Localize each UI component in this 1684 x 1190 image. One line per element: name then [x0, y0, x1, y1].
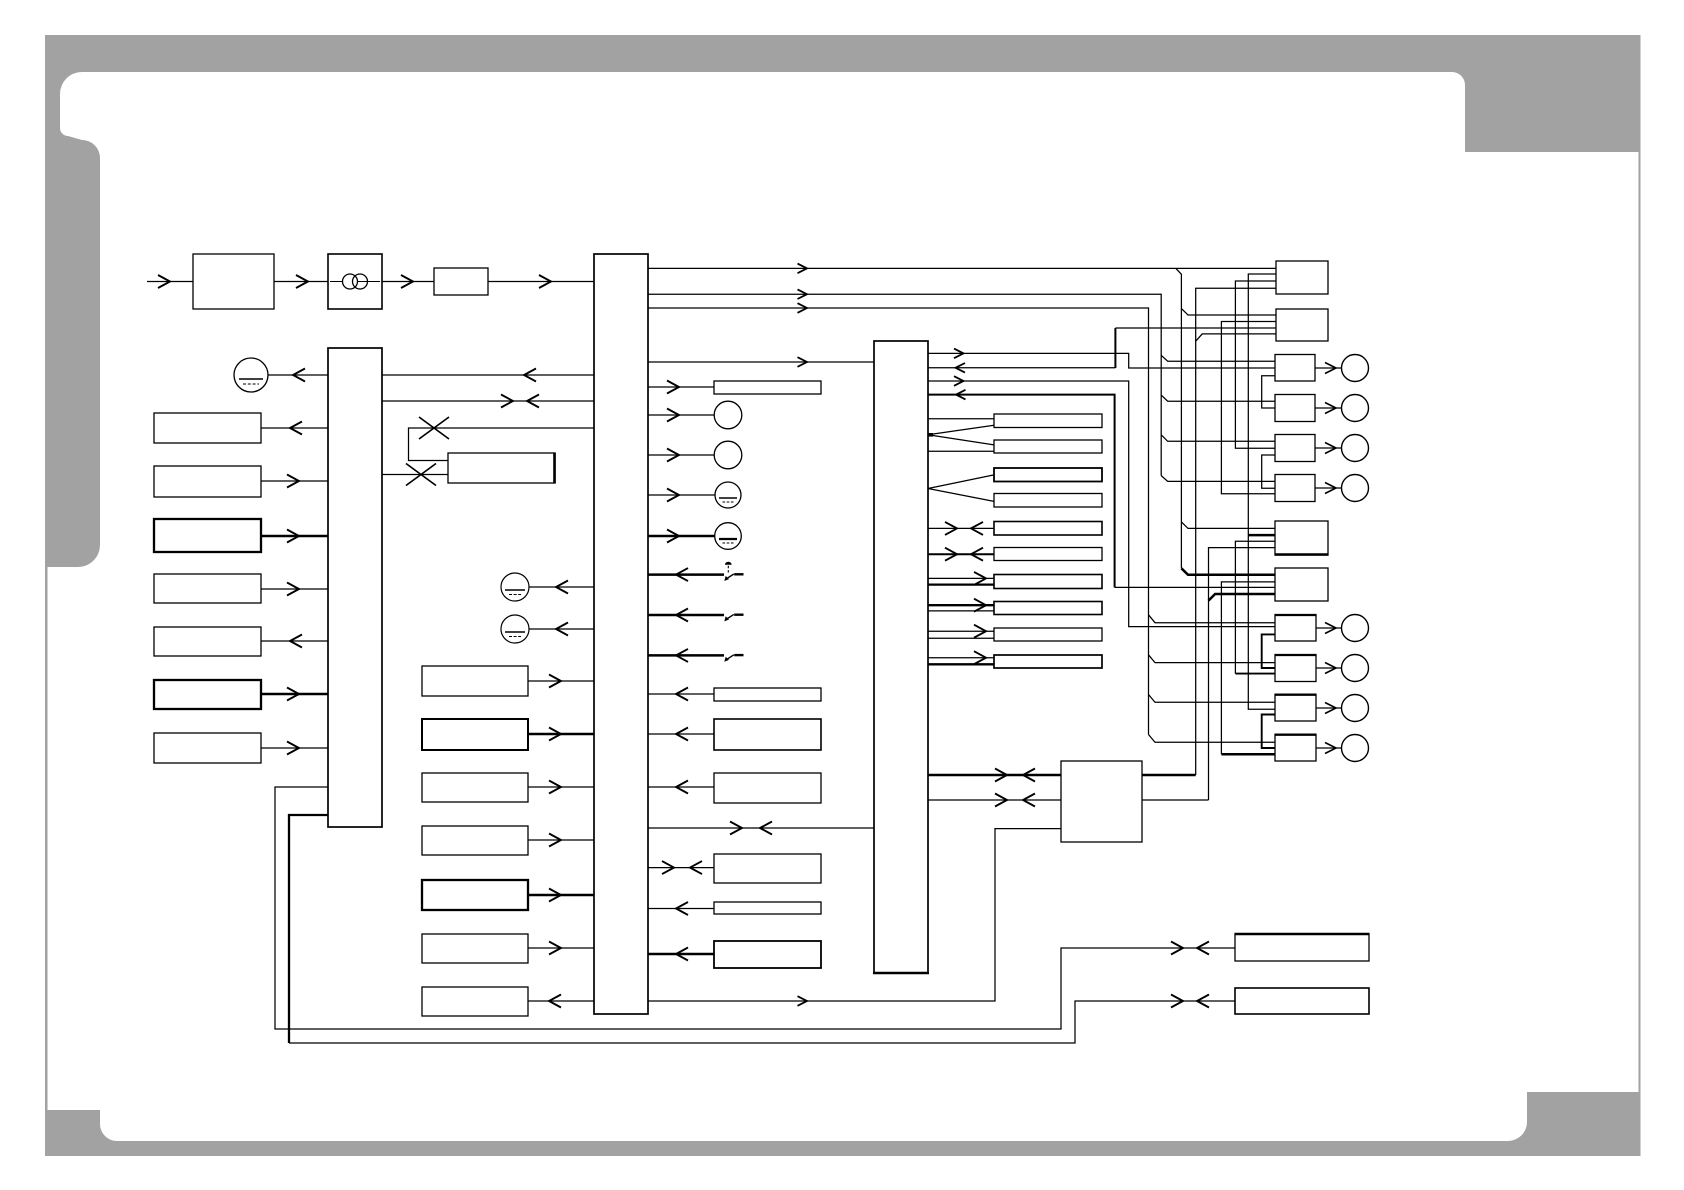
transformer symbol: secondary circle [353, 274, 368, 289]
wire: bus B to circle O1 [648, 414, 715, 416]
box R6 [1275, 475, 1315, 502]
arrow: L4 to bus A [287, 583, 299, 596]
arrow: M5 to bus B [549, 834, 561, 847]
wire: vertical V5a R2 to R6 [1221, 322, 1276, 494]
wire: vertical V1b end to R8 [1115, 586, 1275, 588]
wire: loop bracket R5 to R6 [1262, 455, 1275, 488]
box R7 bottom edge thick [1275, 553, 1329, 555]
wire: bus C to S2 straight [928, 450, 994, 452]
arrow: to T4 [676, 781, 688, 794]
wire thick: V4 end to R8 [1181, 568, 1275, 575]
wire: bus C to S8 pair lower [928, 610, 994, 612]
arrow: R12 to lamp 8 [1325, 743, 1336, 754]
box M5 [422, 826, 528, 855]
wire: bus B to box T4 [648, 786, 714, 788]
box R10 top edge thick [1275, 654, 1317, 656]
wire: V2 branch to R10 [1149, 655, 1276, 663]
box R12 top edge thick [1275, 734, 1317, 736]
arrow: R3 to lamp 1 [1325, 363, 1336, 374]
lamp circle 2 [1342, 395, 1369, 422]
arrow: bus C to S8 [974, 599, 986, 612]
X symbol: on M1 wire from bus B [419, 417, 449, 439]
arrow: mains entry [158, 275, 170, 288]
arrow: L2 to bus A [287, 475, 299, 488]
box P1: power input block [193, 254, 274, 309]
arrow: to O3 [667, 489, 679, 502]
box T3 [714, 719, 821, 750]
wire: feedback loop W2 to box B2 [289, 1001, 1235, 1043]
arrow: bus C output 2 [956, 363, 966, 373]
arrow: L3 to bus A [287, 530, 299, 543]
wire: bus C to S1 straight [928, 418, 994, 420]
wire: V2 end to R12 [1149, 735, 1276, 743]
arrow: bus C to S9 [974, 625, 986, 638]
box B2 [1235, 988, 1369, 1014]
bar S4 [994, 494, 1102, 508]
bar T1 [714, 381, 821, 394]
arrow pair: to T5 [662, 861, 674, 874]
box R1 [1276, 261, 1328, 294]
box R12 [1275, 735, 1316, 762]
wire thick: BD to vertical Vc [1142, 774, 1196, 777]
arrow pair: bus C to BD lower [995, 794, 1007, 807]
box M8 [422, 987, 528, 1016]
arrow: fuse to bus B [539, 275, 551, 288]
arrow: bus B output 3 [798, 303, 808, 313]
box R9 [1275, 615, 1316, 641]
wire: V3 branch to R4 [1161, 395, 1275, 401]
arrow: L7 to bus A [287, 742, 299, 755]
wire: bus C to S10 pair [928, 657, 994, 659]
arrow: bus C output 3 [954, 376, 964, 386]
wire: bus A to bus B interconnect [382, 400, 594, 402]
box L5 [154, 627, 261, 656]
arrow pair: bus C to S5 [945, 522, 957, 535]
wire: R11 output to lamp 7 [1316, 707, 1342, 709]
wire: vertical V6b R7 to R10 [1235, 541, 1276, 673]
wire: bus B to bus A upper [382, 374, 594, 376]
lamp circle 6 [1342, 655, 1369, 682]
arrow: M4 to bus B [549, 781, 561, 794]
X symbol: on M1 wire from bus A [406, 464, 436, 486]
arrow pair: W2 to box B2 [1171, 995, 1183, 1008]
box L2 [154, 466, 261, 497]
arrow: to M8 [549, 995, 561, 1008]
wire: transformer to fuse box [382, 281, 434, 283]
arrow: bus B output 2 [798, 289, 808, 299]
wire: bus B to circle C1 [529, 586, 594, 588]
bar T6 [714, 902, 821, 914]
arrow: to T7 [676, 948, 688, 961]
wire thick: bus C to S10 pair lower [928, 663, 994, 665]
box M6 thick [422, 880, 528, 910]
wire: V2 branch to R11 [1149, 695, 1276, 703]
lamp circle 7 [1342, 695, 1369, 722]
lamp circle 5 [1342, 615, 1369, 642]
meter circle with ground lines (left) [234, 358, 268, 392]
wire: R10 output to lamp 6 [1316, 667, 1342, 669]
wire: R9 output to lamp 5 [1316, 627, 1342, 629]
wire: bus C output 2 to vertical V1b [928, 367, 1115, 369]
bus C: secondary IC column [874, 341, 928, 973]
wire: fan 2 to S3 [928, 475, 994, 489]
bar S6 [994, 548, 1102, 561]
arrow: to key switch 3 [676, 649, 688, 662]
wire thick: bus C to S6 [928, 553, 994, 555]
lamp circle 1 [1342, 355, 1369, 382]
wire: fan 1 to S1 [928, 425, 994, 435]
wire: Vc branch chamfer to R2 [1196, 334, 1276, 341]
arrow: to O2 [667, 449, 679, 462]
wire: through transformer [328, 281, 382, 283]
arrow: to O1 [667, 409, 679, 422]
circle C1 with ground lines [501, 573, 529, 601]
lamp circle 4 [1342, 475, 1369, 502]
arrow: R9 to lamp 5 [1325, 623, 1336, 634]
arrow: bus C output 4 [956, 390, 966, 400]
box M4 [422, 773, 528, 802]
arrow pair: bus C to BD upper [995, 769, 1007, 782]
wire: vertical Vc to R1 [1196, 288, 1276, 775]
arrow: to T3 [676, 728, 688, 741]
wire: V3 branch to R3 [1161, 355, 1275, 361]
wire: R4 output to lamp 2 [1315, 407, 1342, 409]
box R8 [1275, 568, 1328, 601]
key switch 2 [724, 614, 743, 621]
wire thick: bus B to key switch 1 [648, 573, 724, 576]
wire: vertical V6a R1 to R5 [1235, 281, 1276, 448]
wire: L5 to bus A [261, 640, 328, 642]
wire: V4 branch to R2 [1181, 309, 1276, 315]
wire: fuse box to power bus [488, 281, 594, 283]
box F1: fuse block [434, 268, 488, 295]
wire thick: V6b end to R10 [1235, 673, 1275, 675]
bus C bottom edge thick [873, 972, 929, 975]
wire: R3 output to lamp 1 [1315, 367, 1342, 369]
arrow: bus B output 1 [798, 264, 808, 274]
circle O3 with ground lines [715, 482, 741, 508]
wire thick: bus B to box T7 [648, 953, 714, 956]
transformer symbol: primary circle [343, 274, 358, 289]
wire: bus C output 3 to vertical V8 to R9 [928, 381, 1275, 627]
arrow: M2 to bus B [549, 675, 561, 688]
wire: bus C to S5 [928, 527, 994, 529]
arrow: to key switch 1 [676, 568, 688, 581]
wire thick: V7 branch to R7 [1248, 534, 1276, 537]
arrow: bus C to S7 [974, 572, 986, 585]
wire thick: bus C to S8 pair [928, 604, 994, 606]
box B1 [1235, 934, 1369, 961]
box BD: bottom driver [1061, 761, 1142, 842]
arrow: to circle C2 [556, 623, 568, 636]
wire: branch chamfer to vertical V4 [1176, 268, 1182, 568]
circle C2 with ground lines [501, 615, 529, 643]
bar S3 [994, 468, 1102, 482]
wire: mains input to box P1 [147, 281, 193, 283]
wire: bus C to S9 pair [928, 630, 994, 632]
wire: V2 branch to R9 [1149, 615, 1276, 623]
wire thick: vertical V1a [1114, 328, 1116, 368]
wire: R12 output to lamp 8 [1316, 747, 1342, 749]
wire: fan 2 to S4 [928, 489, 994, 502]
wire: bus B top output 3 to vertical V2 [648, 308, 1149, 735]
arrow: to meter circle [293, 369, 305, 382]
box R9 top edge thick [1275, 614, 1317, 616]
circle O2 [714, 441, 742, 469]
arrow: M6 to bus B [549, 889, 561, 902]
box M1: oscillator [448, 453, 555, 483]
arrow: to circle C1 [556, 581, 568, 594]
wire: bus C to BD box lower [928, 799, 1061, 801]
wire: bus B to bus C top [648, 361, 874, 363]
wire thick: bus C to BD box upper [928, 774, 1061, 777]
wire: vertical V5b R8 to R12 [1221, 582, 1276, 754]
circle O4 with ground lines [715, 523, 742, 550]
box T7 [714, 941, 821, 968]
wire thick: bus B to circle O4 [648, 535, 715, 538]
arrow: R4 to lamp 2 [1325, 403, 1336, 414]
wire: vertical Vd to R7 [1209, 548, 1277, 800]
arrow: M3 to bus B [549, 728, 561, 741]
transformer symbol: wire through box [330, 281, 380, 283]
wire: M2 to bus B [528, 680, 594, 682]
arrow: L6 to bus A [287, 688, 299, 701]
wire: L4 to bus A [261, 588, 328, 590]
box R11 [1275, 695, 1316, 722]
box M7 [422, 934, 528, 963]
arrow: bus B to bus C [798, 357, 808, 367]
bar S10 [994, 655, 1102, 668]
wire: R6 output to lamp 4 [1315, 487, 1342, 489]
box L1 [154, 413, 261, 443]
box R10 [1275, 655, 1316, 682]
bar S5 [994, 522, 1102, 536]
bar S2 [994, 440, 1102, 453]
wire: bus B elbow to osc box M1 input 1 [409, 428, 595, 461]
box M2 [422, 666, 528, 696]
wire: feedback loop W1 bus A to box B1 [275, 787, 1235, 1029]
arrow: to L5 [290, 635, 302, 648]
wire: R5 output to lamp 3 [1315, 447, 1342, 449]
bar T2 [714, 688, 821, 701]
wire thick: V5b end to R12 [1221, 753, 1275, 756]
wire: bus B to circle C2 [529, 628, 594, 630]
arrow: bus C output 1 [954, 349, 964, 359]
wire thick: loop bracket R9 to R10 [1262, 634, 1275, 668]
wire: vertical V7 R1 to R11 [1248, 274, 1276, 709]
arrow: to key switch 2 [676, 609, 688, 622]
wire: loop bracket R3 to R4 [1262, 376, 1275, 408]
lamp circle 3 [1342, 435, 1369, 462]
wire: bus C output 1 jog to R3 [928, 353, 1275, 368]
wire: BD to vertical Vd [1142, 799, 1209, 801]
arrow: transformer to fuse [401, 275, 413, 288]
box M3 thick [422, 719, 528, 750]
arrow: bus B to bus A [524, 369, 536, 382]
box R4 [1275, 395, 1315, 422]
wire: bus B top output 1 to R1 [648, 267, 1276, 269]
wire: bus B to bar T6 [648, 908, 714, 910]
wire: V1a to R2 [1115, 327, 1276, 329]
wire: bus C to S7 pair [928, 577, 994, 579]
arrow: R5 to lamp 3 [1325, 443, 1336, 454]
box R7 [1275, 521, 1328, 555]
wire: V3 branch to R5 [1161, 435, 1275, 442]
lamp circle 8 [1342, 735, 1369, 762]
box L4 [154, 574, 261, 603]
wire thick: bus B to key switch 2 [648, 614, 724, 617]
circle O1 [714, 401, 742, 429]
wire: bus B to box T3 [648, 733, 714, 735]
wire thick: M6 to bus B [528, 894, 594, 897]
arrow: P1 to transformer [296, 275, 308, 288]
wire: V3 end to R6 [1161, 476, 1275, 482]
arrow: M7 to bus B [549, 942, 561, 955]
wire: bus B to bar T2 [648, 693, 714, 695]
wire: M5 to bus B [528, 839, 594, 841]
arrow: R10 to lamp 6 [1325, 663, 1336, 674]
wire thick: M3 to bus B [528, 733, 594, 736]
box R2 [1276, 309, 1328, 341]
wire thick: L6 to bus A [261, 693, 328, 696]
wire: M7 to bus B [528, 947, 594, 949]
box M1 right edge thick [553, 453, 556, 484]
bus A: left interface column [328, 348, 382, 827]
box R3 [1275, 355, 1315, 382]
key switch 3 [724, 655, 743, 662]
box L7 [154, 733, 261, 763]
box R5 [1275, 435, 1315, 462]
box R11 top edge thick [1275, 694, 1317, 696]
wire: bus A to osc box M1 input 2 [382, 474, 448, 476]
wire: bus B to box T5 [648, 867, 714, 869]
box L6 thick [154, 680, 261, 709]
wire: bus B to circle O2 [648, 454, 715, 456]
wire: L7 to bus A [261, 747, 328, 749]
wire thick: loop bracket R11 to R12 [1262, 715, 1275, 749]
bar S8 [994, 602, 1102, 615]
wire: bus B to circle O3 [648, 494, 715, 496]
key switch 1 with button [724, 574, 743, 581]
arrow: to O4 [667, 530, 679, 543]
wire: P1 to transformer T [274, 281, 328, 283]
box T: transformer block [328, 254, 382, 309]
box T4 [714, 773, 821, 803]
wire thick: Vd branch chamfer to R8 [1209, 594, 1276, 601]
bar S9 [994, 628, 1102, 641]
arrow: to T1 [667, 381, 679, 394]
wire thick: bus B to key switch 3 [648, 654, 724, 657]
wire: L2 to bus A [261, 480, 328, 482]
wire: fan 1 to S2 [928, 435, 994, 445]
arrow pair: W1 to box B1 [1171, 942, 1183, 955]
bar S1 [994, 414, 1102, 428]
wire: bus B to M8 [528, 1000, 594, 1002]
box B1 top edge thick [1235, 933, 1370, 936]
wire: V4 branch to R7 [1181, 522, 1276, 529]
arrow: to L1 [290, 422, 302, 435]
arrow: to T6 [676, 902, 688, 915]
wire thick: bus C to S7 pair lower [928, 583, 994, 585]
arrow pair: bus A - bus B interconnect [501, 395, 513, 408]
arrow pair: bus C to S6 [945, 548, 957, 561]
wire: bus B to bus C lower interconnect [648, 827, 874, 829]
arrow: bus B bottom output [798, 996, 808, 1006]
box L3 thick [154, 519, 261, 552]
wire thick: bus C output 4 [928, 395, 1115, 588]
wire: L1 to bus A [261, 427, 328, 429]
wire: bus C to S9 pair lower [928, 637, 994, 639]
wire thick: feedback loop W2 left elbow [289, 815, 328, 1043]
arrow pair: bus B - bus C lower [730, 822, 742, 835]
arrow: R11 to lamp 7 [1325, 703, 1336, 714]
bar S7 [994, 575, 1102, 589]
wire: M4 to bus B [528, 786, 594, 788]
bus B: main IC column [594, 254, 648, 1014]
box T5 [714, 854, 821, 883]
wire: bus B top output 2 to vertical V3 [648, 294, 1161, 475]
wire: bus B bottom output to BD box [648, 829, 1061, 1001]
arrow: to T2 [676, 688, 688, 701]
wire: bus A to meter circle [268, 374, 328, 376]
diagram strokes [147, 268, 1342, 1043]
wire: bus B to tuning bar T1 [648, 386, 714, 388]
arrow: bus C to S10 [974, 651, 986, 664]
wire thick: L3 to bus A [261, 535, 328, 538]
fan 1 vertex dot [928, 433, 933, 437]
arrow: R6 to lamp 4 [1325, 483, 1336, 494]
